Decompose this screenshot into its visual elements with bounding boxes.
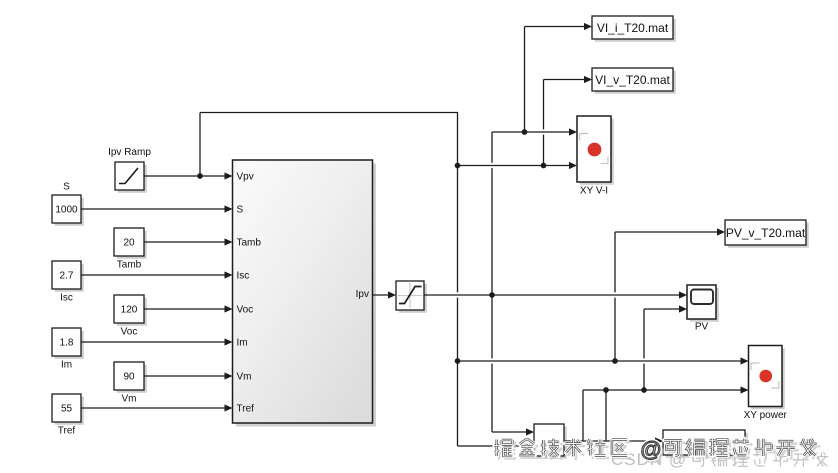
junction PV_v tap on XY power row xyxy=(612,358,618,364)
wire Vpv bus to product input 2 xyxy=(458,442,535,449)
subsystem PV model block xyxy=(233,160,377,427)
watermark dark text juejin community @ ... xyxy=(494,438,819,464)
wire ramp to Vpv input xyxy=(144,172,233,179)
wire 90 to Vm input xyxy=(144,372,233,379)
svg-text:120: 120 xyxy=(121,305,138,316)
svg-text:Ipv Ramp: Ipv Ramp xyxy=(108,147,151,158)
wire Vpv to XY V-I input 2 xyxy=(458,162,578,169)
junction power row x=606 xyxy=(603,387,609,393)
svg-text:Vm: Vm xyxy=(237,372,252,383)
constant block Vm = 90 xyxy=(114,362,147,405)
svg-text:Tamb: Tamb xyxy=(237,238,262,249)
to-file block bottom (PV_i_T20.mat) xyxy=(663,430,748,458)
wire power row drop x=583 xyxy=(582,390,584,441)
svg-text:Im: Im xyxy=(237,338,248,349)
ramp source block Ipv Ramp xyxy=(108,147,151,193)
wire to VI_v_T20.mat file block xyxy=(544,76,593,166)
junction VI_v tap xyxy=(541,163,547,169)
svg-text:PV_v_T20.mat: PV_v_T20.mat xyxy=(726,226,806,240)
wire Ipv vertical branch x=492 xyxy=(492,132,534,436)
wire Vpv branch up from ramp wire xyxy=(199,113,201,177)
wire power row to PV scope input 2 xyxy=(644,305,687,390)
svg-text:90: 90 xyxy=(123,372,135,383)
junction at power row x=644 xyxy=(641,387,647,393)
constant block Isc = 2.7 xyxy=(52,261,84,304)
wire 1.8 to Im input xyxy=(81,338,233,345)
svg-text:Isc: Isc xyxy=(237,271,250,282)
wire saturation output to PV scope input 1 (Ipv line) xyxy=(424,291,687,298)
wire Ipv to XY V-I input 1 xyxy=(492,128,577,135)
svg-text:VI_v_T20.mat: VI_v_T20.mat xyxy=(595,73,670,87)
junction Vpv bus to XY power row xyxy=(455,358,461,364)
watermark light text CSDN @ ... xyxy=(611,450,828,469)
junction Ipv branch at x=492 on Ipv line xyxy=(489,292,495,298)
constant block Im = 1.8 xyxy=(52,328,84,371)
scope block PV xyxy=(687,285,719,333)
svg-text:PV: PV xyxy=(695,322,709,333)
svg-text:Isc: Isc xyxy=(60,293,73,304)
svg-text:Voc: Voc xyxy=(237,305,254,316)
to-file block VI_v_T20.mat xyxy=(592,68,676,94)
to-file block VI_i_T20.mat xyxy=(592,16,676,42)
svg-text:55: 55 xyxy=(61,404,73,415)
svg-text:Vpv: Vpv xyxy=(237,172,254,183)
svg-text:Vm: Vm xyxy=(122,394,137,405)
junction Vpv bus to XY V-I row xyxy=(455,163,461,169)
wire Vpv branch top horizontal xyxy=(200,112,458,114)
svg-text:Im: Im xyxy=(61,360,72,371)
wire 2.7 to Isc input xyxy=(81,271,233,278)
wire Vpv to PV_v_T20.mat file block xyxy=(615,228,725,361)
wire power row to XY power input 2 xyxy=(583,386,749,393)
svg-text:Tref: Tref xyxy=(58,426,76,437)
svg-text:S: S xyxy=(237,205,244,216)
svg-text:VI_i_T20.mat: VI_i_T20.mat xyxy=(597,21,669,35)
junction VI_i tap xyxy=(522,129,528,135)
svg-text:1.8: 1.8 xyxy=(60,338,74,349)
constant block Voc = 120 xyxy=(114,295,147,338)
wire Vpv vertical bus x=457.5 xyxy=(457,113,459,447)
wire product output to bottom to-file block xyxy=(564,437,663,444)
svg-text:2.7: 2.7 xyxy=(60,271,74,282)
product block xyxy=(534,424,567,459)
svg-text:XY V-I: XY V-I xyxy=(580,186,608,197)
XY graph scope XY V-I xyxy=(577,116,614,197)
wire power row drop x=606 xyxy=(605,390,607,441)
svg-text:1000: 1000 xyxy=(55,205,78,216)
svg-text:20: 20 xyxy=(123,238,135,249)
wire 120 to Voc input xyxy=(144,305,233,312)
saturation block xyxy=(396,281,427,313)
svg-text:S: S xyxy=(63,182,70,193)
svg-text:Ipv: Ipv xyxy=(356,289,369,300)
XY graph scope XY power xyxy=(744,346,788,422)
wire to VI_i_T20.mat file block xyxy=(525,23,593,132)
wire Vpv row to XY power input 1 xyxy=(458,357,749,364)
to-file block PV_v_T20.mat xyxy=(725,220,809,248)
svg-text:XY power: XY power xyxy=(744,410,788,421)
wire subsystem Ipv output to saturation input xyxy=(373,291,397,298)
svg-text:Voc: Voc xyxy=(121,327,138,338)
junction on ramp wire (Vpv branch) xyxy=(197,173,203,179)
svg-text:@: @ xyxy=(640,438,662,462)
constant block Tref = 55 xyxy=(52,394,84,437)
wire 55 to Tref input xyxy=(81,404,233,411)
svg-text:Tamb: Tamb xyxy=(117,260,142,271)
svg-text:Tref: Tref xyxy=(237,404,255,415)
wire 20 to Tamb input xyxy=(144,238,233,245)
constant block S = 1000 xyxy=(52,182,84,226)
constant block Tamb = 20 xyxy=(114,228,147,271)
wire 1000 to S input xyxy=(81,205,233,212)
